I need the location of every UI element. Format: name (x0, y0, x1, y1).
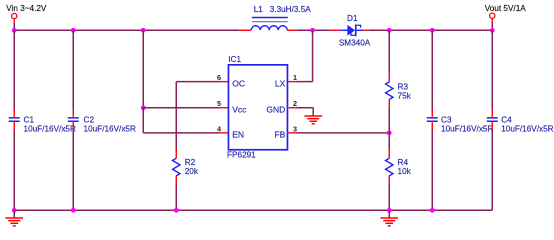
ground left (5, 218, 23, 226)
op-amp IC1 FP6291 body (228, 65, 287, 150)
svg-text:5: 5 (217, 99, 221, 108)
svg-text:SM340A: SM340A (339, 38, 371, 47)
svg-text:C3: C3 (441, 116, 452, 125)
pin stub GND pin2 (288, 107, 295, 109)
svg-text:EN: EN (232, 129, 244, 139)
wire LX horizontal (296, 81, 313, 83)
junction R3 top (387, 28, 392, 33)
svg-text:D1: D1 (347, 14, 358, 23)
resistor R2 (173, 158, 180, 176)
wire R3 top stub (388, 74, 390, 82)
wire OC to R2 vertical (175, 82, 177, 150)
junction R2 bottom (174, 208, 179, 213)
svg-text:C4: C4 (501, 116, 512, 125)
junction LX node on rail (310, 28, 315, 33)
svg-text:IC1: IC1 (228, 55, 241, 64)
wire C1 column lower (13, 130, 15, 211)
wire C4 top stub (491, 110, 493, 117)
junction ground rail left corner (12, 208, 17, 213)
svg-text:FP6291: FP6291 (227, 150, 256, 159)
wire R2 top stub (175, 150, 177, 158)
wire stub to right ground (388, 210, 390, 218)
wire C3 bottom stub (431, 122, 433, 129)
wire R3 column upper (388, 30, 390, 74)
junction Vout corner (490, 28, 495, 33)
pin stub LX pin1 (288, 81, 295, 83)
wire R3 bottom stub (388, 99, 390, 107)
pin stub OC pin6 (219, 81, 228, 83)
wire D1 anode stub (330, 29, 339, 31)
capacitor C1 (9, 118, 20, 121)
wire LX vertical to rail (312, 30, 314, 81)
diode D1 SM340A (339, 25, 364, 37)
wire EN horizontal (143, 132, 219, 134)
svg-text:R4: R4 (398, 158, 409, 167)
wire top rail VIN net (left) (14, 29, 239, 31)
wire R2 bottom stub (175, 176, 177, 184)
wire C2 top stub (72, 110, 74, 117)
wire C4 bottom stub (491, 122, 493, 129)
wire R3 to FB node (388, 107, 390, 132)
terminal Vin (12, 13, 17, 18)
ground IC GND (304, 116, 322, 124)
resistor R4 (386, 158, 393, 176)
capacitor C3 (427, 118, 438, 121)
pin stub Vcc pin5 (219, 107, 228, 109)
wire R4 bottom stub (388, 176, 390, 184)
wire EN branch down (142, 108, 144, 133)
wire FB node to R4 (388, 133, 390, 150)
junction C2 bottom (71, 208, 76, 213)
junction C3 top (430, 28, 435, 33)
pin stub FB pin3 (288, 132, 295, 134)
wire L1 left stub (239, 29, 251, 31)
wire GND pin to ground (296, 108, 314, 116)
resistor R3 (386, 82, 393, 100)
svg-text:10uF/16V/x5R: 10uF/16V/x5R (441, 124, 493, 133)
svg-text:10uF/16V/x5R: 10uF/16V/x5R (24, 124, 76, 133)
wire C4 column lower (491, 130, 493, 211)
svg-text:FB: FB (274, 129, 285, 139)
svg-text:1: 1 (293, 73, 297, 82)
wire FB horizontal (296, 132, 390, 134)
wire Vcc horizontal (143, 107, 219, 109)
junction Vcc branch top (141, 28, 146, 33)
junction FB node (387, 130, 392, 135)
wire top rail VOUT net (369, 29, 493, 31)
junction R4 bottom (387, 208, 392, 213)
svg-text:2: 2 (293, 99, 297, 108)
junction C2 top (71, 28, 76, 33)
svg-text:10uF/16V/x5R: 10uF/16V/x5R (84, 124, 136, 133)
junction Vcc/EN split (141, 105, 146, 110)
svg-text:GND: GND (266, 104, 285, 114)
svg-text:3: 3 (293, 124, 297, 133)
svg-text:Vcc: Vcc (232, 104, 247, 114)
svg-text:3.3uH/3.5A: 3.3uH/3.5A (270, 5, 312, 14)
wire C2 column lower (72, 130, 74, 211)
wire C1 bottom stub (13, 122, 15, 129)
wire Vin stub (13, 19, 15, 30)
svg-text:C2: C2 (84, 116, 95, 125)
wire LX node rail segment (297, 29, 331, 31)
wire R4 top stub (388, 150, 390, 158)
wire C1 top stub (13, 110, 15, 117)
svg-text:20k: 20k (185, 167, 199, 176)
svg-text:L1: L1 (254, 5, 264, 14)
wire stub to left ground (13, 210, 15, 218)
wire C2 column upper (72, 30, 74, 109)
pin stub EN pin4 (219, 132, 228, 134)
wire Vcc/EN branch vertical (142, 30, 144, 108)
wire Vout stub (491, 19, 493, 31)
wire C3 top stub (431, 110, 433, 117)
inductor L1 (251, 18, 288, 31)
wire R4 to ground rail (388, 184, 390, 211)
svg-text:Vout 5V/1A: Vout 5V/1A (485, 4, 527, 13)
capacitor C2 (68, 118, 79, 121)
wire C3 column upper (431, 30, 433, 109)
wire L1 right stub (287, 29, 297, 31)
wire R2 to ground rail (175, 184, 177, 211)
wire C3 column lower (431, 130, 433, 211)
capacitor C4 (487, 118, 498, 121)
ground right (380, 218, 398, 226)
svg-text:C1: C1 (24, 116, 35, 125)
terminal Vout (490, 13, 495, 18)
junction C3 bottom (430, 208, 435, 213)
svg-text:Vin 3~4.2V: Vin 3~4.2V (6, 4, 47, 13)
junction Vin corner (12, 28, 17, 33)
wire D1 cathode stub (364, 29, 369, 31)
svg-text:R3: R3 (398, 82, 409, 91)
svg-text:6: 6 (217, 73, 221, 82)
svg-text:OC: OC (232, 78, 245, 88)
wire C2 bottom stub (72, 122, 74, 129)
svg-text:R2: R2 (185, 158, 196, 167)
wire C4 column upper (491, 30, 493, 109)
wire bottom ground rail (14, 209, 492, 211)
svg-text:LX: LX (275, 78, 286, 88)
svg-text:10uF/16V/x5R: 10uF/16V/x5R (501, 124, 553, 133)
svg-text:75k: 75k (398, 91, 412, 100)
wire C1 column upper (13, 30, 15, 109)
svg-text:10k: 10k (398, 167, 412, 176)
wire OC horizontal (176, 81, 219, 83)
